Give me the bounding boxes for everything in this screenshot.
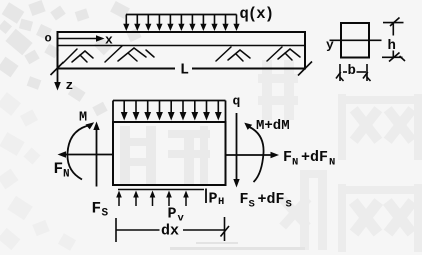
shear FS left arrow (up) (93, 122, 99, 187)
label Pv (168, 206, 185, 225)
svg-text:q(x): q(x) (240, 5, 274, 23)
svg-text:F: F (54, 160, 64, 178)
svg-text:dx: dx (161, 223, 179, 240)
svg-text:F: F (92, 200, 102, 218)
svg-text:N: N (292, 157, 298, 169)
svg-text:q: q (233, 94, 241, 109)
svg-text:x: x (105, 33, 113, 48)
beam outline (58, 32, 306, 69)
watermark blocks left strip (0, 92, 76, 251)
svg-text:S: S (249, 199, 255, 211)
section y axis line (330, 39, 382, 41)
dimension L tick left (51, 62, 64, 75)
hatch cluster 3 (216, 47, 250, 61)
normal force FN+dFN arrow (right) (226, 152, 280, 158)
element load arrows (121, 101, 222, 121)
svg-text:+dF: +dF (301, 149, 328, 166)
svg-text:N: N (329, 157, 335, 169)
distributed load q(x) line (126, 14, 237, 16)
distributed load q(x) arrows (123, 15, 239, 32)
watermark X crosses right (279, 94, 422, 252)
svg-text:o: o (45, 32, 52, 46)
svg-text:S: S (286, 199, 292, 211)
svg-text:P: P (209, 191, 218, 208)
label PH with bar (206, 189, 224, 209)
svg-text:S: S (102, 208, 109, 220)
label FN (54, 160, 70, 181)
watermark blocks top-left (0, 0, 142, 116)
label FN+dFN (283, 149, 335, 169)
hatch cluster 1 (63, 49, 93, 63)
svg-text:F: F (283, 149, 292, 166)
dimension dx (116, 217, 229, 242)
shear FS+dFS arrow (down) (233, 113, 239, 188)
element outline (113, 122, 226, 185)
hatch cluster 4 (267, 47, 300, 61)
svg-text:F: F (240, 191, 249, 208)
watermark faint footer text (170, 242, 305, 250)
svg-text:y: y (326, 38, 334, 53)
watermark glyph center (inside element) (120, 126, 210, 184)
svg-text:N: N (63, 169, 70, 181)
hatch cluster 2 (105, 46, 154, 62)
dimension L tick right (298, 62, 312, 76)
label FS (92, 200, 109, 220)
svg-text:b: b (348, 63, 356, 79)
dimension L label (175, 61, 192, 79)
dimension b (336, 64, 371, 81)
dimension dx label (160, 221, 184, 240)
normal force FN arrow (left) (58, 151, 114, 158)
svg-text:H: H (218, 196, 224, 208)
bond Pv arrows (up) (116, 191, 189, 207)
svg-text:L: L (180, 62, 189, 79)
watermark glyph right of center (258, 60, 298, 120)
dimension h (382, 18, 405, 62)
section square (341, 23, 369, 58)
moment M+dM arc (244, 123, 263, 182)
bond line under element (118, 189, 204, 191)
svg-text:z: z (66, 78, 74, 93)
label FS+dFS (240, 191, 292, 211)
axis x arrow (58, 35, 105, 42)
beam interior line (58, 45, 306, 47)
svg-text:M+dM: M+dM (256, 118, 290, 134)
element load line (113, 101, 226, 123)
svg-text:+dF: +dF (258, 191, 285, 208)
svg-text:P: P (168, 206, 177, 223)
svg-text:h: h (388, 38, 396, 54)
svg-text:M: M (79, 111, 87, 126)
moment M arc (67, 122, 94, 179)
axis z arrow (54, 69, 61, 91)
